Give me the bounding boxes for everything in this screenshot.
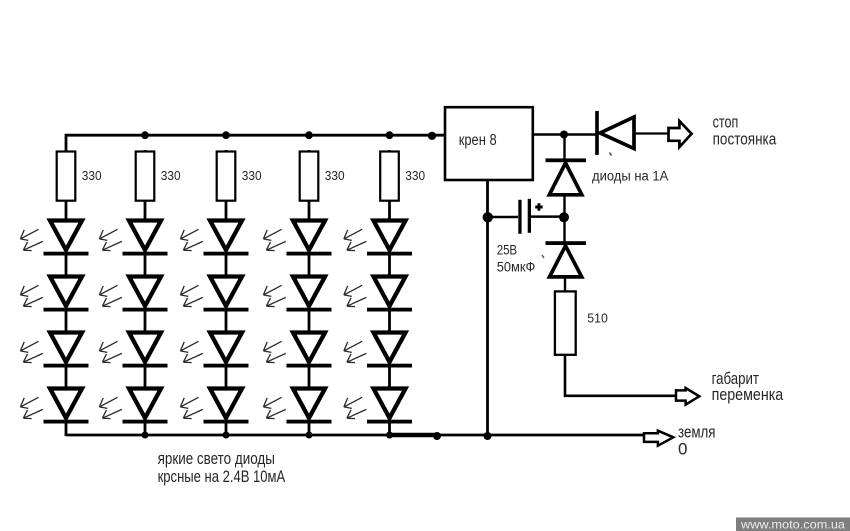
LED column 2 row 1 (123, 221, 168, 256)
watermark www.moto.com.ua (736, 517, 850, 531)
junction: bottom bus / column 5 (386, 432, 393, 439)
LED column 1 row 3 (44, 333, 89, 368)
svg-text:50мкФ: 50мкФ (497, 259, 536, 274)
LED light arrows (column 5 row 3) (344, 341, 366, 362)
LED light arrows (column 2 row 4) (99, 397, 121, 418)
LED light arrows (column 5 row 4) (344, 397, 366, 418)
LED column 2 row 3 (123, 333, 168, 368)
svg-text:330: 330 (82, 168, 102, 183)
junction: top bus / column 5 (386, 131, 394, 139)
junction: regulator ground line / capacitor tap (483, 212, 493, 222)
junction: input node before regulator (428, 132, 436, 140)
svg-text:яркие свето диоды: яркие свето диоды (158, 449, 275, 468)
junction: bottom bus / column 4 (306, 432, 313, 439)
wire: regulator output to series diode (533, 133, 596, 135)
resistor R3 330 (column 3) (217, 152, 236, 201)
wire: VD22 anode to resistor R6 (564, 277, 566, 292)
svg-text:постоянка: постоянка (713, 129, 777, 148)
wire: column 1 vertical chain (65, 150, 68, 436)
svg-text:крсные на 2.4В 10мА: крсные на 2.4В 10мА (158, 467, 286, 486)
LED light arrows (column 1 row 4) (20, 397, 42, 418)
LED light arrows (column 1 row 3) (20, 341, 42, 362)
svg-text:www.moto.com.ua: www.moto.com.ua (740, 517, 846, 531)
junction: bottom bus / regulator ground line (484, 432, 492, 440)
LED light arrows (column 2 row 3) (99, 341, 121, 362)
LED column 3 row 3 (204, 333, 249, 368)
svg-text:25В: 25В (497, 243, 517, 258)
LED light arrows (column 4 row 4) (263, 397, 285, 418)
svg-text:330: 330 (242, 168, 262, 183)
wire: R6 down and right to габарит arrow (565, 356, 676, 396)
diode VD21 (upper 1A diode, cathode up) (546, 158, 587, 194)
junction: top bus / column 2 (141, 131, 149, 139)
wire: column 3 vertical chain (225, 150, 228, 436)
LED column 5 row 2 (367, 277, 412, 312)
wire: column 4 vertical chain (308, 150, 311, 436)
junction: mid node (capacitor +) (559, 212, 569, 222)
LED column 4 row 1 (287, 221, 332, 256)
LED column 3 row 1 (204, 221, 249, 256)
resistor R1 330 (column 1) (57, 152, 76, 201)
svg-text:диоды на 1А: диоды на 1А (592, 169, 668, 184)
LED light arrows (column 2 row 1) (99, 229, 121, 250)
LED light arrows (column 3 row 1) (180, 229, 202, 250)
LED column 5 row 3 (367, 333, 412, 368)
diode D1 (series output diode, cathode left) (595, 111, 634, 155)
LED light arrows (column 3 row 3) (180, 341, 202, 362)
output arrow "земля 0" (ground) (644, 431, 673, 446)
wire: column 5 vertical chain (388, 150, 391, 436)
LED light arrows (column 5 row 1) (344, 229, 366, 250)
LED column 1 row 1 (44, 221, 89, 256)
resistor R4 330 (column 4) (300, 152, 319, 201)
LED column 2 row 4 (123, 389, 168, 424)
LED light arrows (column 4 row 2) (263, 285, 285, 306)
stray mark below diode D1 (610, 153, 612, 156)
wire: bottom bus thick segment (column 5 to node) (388, 433, 437, 438)
wire: bottom ground bus (66, 435, 646, 436)
wire: diode D1 to output arrow (634, 132, 669, 134)
LED light arrows (column 2 row 2) (99, 285, 121, 306)
wire: regulator ground pin down to bottom bus (486, 181, 489, 436)
LED column 2 row 2 (123, 277, 168, 312)
wire: output node down to diode VD21 (563, 135, 565, 161)
LED column 4 row 3 (287, 333, 332, 368)
wire: top supply bus from column 1 to regulator input (66, 135, 445, 152)
output arrow "стоп постоянка" (669, 121, 692, 147)
LED light arrows (column 3 row 2) (180, 285, 202, 306)
junction: bottom bus / column 3 (223, 432, 230, 439)
LED light arrows (column 1 row 2) (20, 285, 42, 306)
svg-text:переменка: переменка (712, 385, 784, 404)
LED column 3 row 4 (204, 389, 249, 424)
LED column 3 row 2 (204, 277, 249, 312)
junction: top bus / column 4 (305, 131, 313, 139)
wire: mid node down to diode VD22 (563, 217, 565, 242)
LED light arrows (column 5 row 2) (344, 285, 366, 306)
svg-text:крен 8: крен 8 (459, 132, 497, 149)
svg-text:510: 510 (587, 311, 608, 326)
junction: top bus / column 3 (222, 131, 230, 139)
LED column 5 row 1 (367, 221, 412, 256)
wire: column 2 vertical chain (144, 150, 147, 436)
svg-text:330: 330 (325, 168, 345, 183)
LED column 1 row 4 (44, 389, 89, 424)
svg-text:330: 330 (161, 168, 181, 183)
resistor R2 330 (column 2) (136, 152, 155, 201)
LED column 4 row 2 (287, 277, 332, 312)
LED light arrows (column 1 row 1) (20, 229, 42, 250)
voltage regulator U1 "крен 8" (445, 107, 533, 180)
LED column 4 row 4 (287, 389, 332, 424)
wire: ground line to capacitor left plate (488, 216, 518, 219)
LED column 1 row 2 (44, 277, 89, 312)
junction: bottom bus node right of column 5 (433, 432, 441, 440)
svg-text:330: 330 (405, 168, 425, 183)
resistor R5 330 (column 5) (380, 152, 399, 201)
junction: bottom bus / column 2 (142, 432, 149, 439)
diode VD22 (lower 1A diode, cathode up) (546, 241, 587, 277)
LED light arrows (column 4 row 1) (263, 229, 285, 250)
capacitor C1 25В 50мкФ (518, 199, 531, 234)
svg-text:0: 0 (678, 440, 687, 459)
wire: capacitor right plate to mid node (531, 215, 560, 218)
resistor R6 510 (555, 291, 576, 354)
LED column 5 row 4 (367, 389, 412, 424)
junction: output node / diode branch (560, 131, 568, 139)
wire: VD21 anode to mid node (563, 196, 565, 218)
stray tick left of VD22 (542, 255, 544, 258)
LED light arrows (column 4 row 3) (263, 341, 285, 362)
output arrow "габарит переменка" (676, 388, 699, 405)
LED light arrows (column 3 row 4) (180, 397, 202, 418)
label: C1 polarity + (535, 203, 542, 210)
